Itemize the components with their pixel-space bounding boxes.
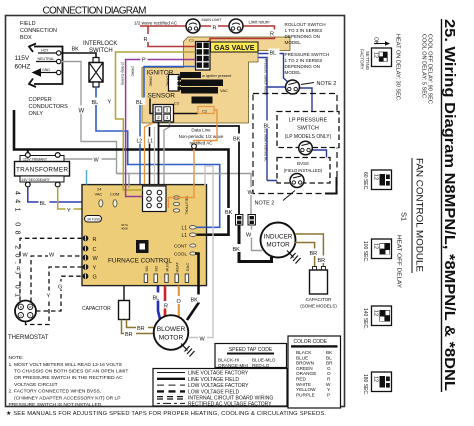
svg-text:ROLLOUT SWITCH: ROLLOUT SWITCH — [285, 22, 326, 27]
fuse 3A — [85, 216, 102, 223]
svg-text:THERMOSTAT: THERMOSTAT — [8, 335, 49, 341]
svg-text:4321: 4321 — [194, 98, 209, 103]
svg-text:S1: S1 — [400, 212, 409, 221]
svg-text:1 TO 3 IN SERIES: 1 TO 3 IN SERIES — [285, 28, 323, 33]
svg-text:BL: BL — [326, 355, 332, 360]
svg-text:COOL ON DELAY: 5 SEC: COOL ON DELAY: 5 SEC — [421, 34, 427, 98]
svg-text:RECTIFIED AC VOLTAGE FACTORY: RECTIFIED AC VOLTAGE FACTORY — [188, 401, 272, 407]
svg-text:12: 12 — [373, 376, 379, 382]
svg-text:ONLY: ONLY — [29, 111, 44, 117]
svg-text:BLOWER: BLOWER — [157, 326, 186, 333]
svg-text:NOTE 2: NOTE 2 — [255, 201, 275, 207]
svg-text:BR: BR — [137, 326, 145, 332]
wire BK hot to interlock — [61, 53, 96, 58]
svg-text:ORANGE-MHI: ORANGE-MHI — [218, 363, 248, 368]
svg-text:24VAC: 24VAC — [131, 66, 135, 77]
svg-text:PRESSURE SWITCH IS NOT INSTALL: PRESSURE SWITCH IS NOT INSTALLED. — [9, 402, 103, 408]
svg-text:BLUE: BLUE — [296, 355, 308, 360]
svg-text:LOW VOLTAGE FIELD: LOW VOLTAGE FIELD — [188, 389, 240, 395]
svg-text:L2: L2 — [137, 139, 143, 145]
svg-text:O: O — [327, 371, 331, 376]
wire O board to blower — [178, 286, 180, 317]
svg-text:25. Wiring Diagram N8MPN/L, *: 25. Wiring Diagram N8MPN/L, *8MPN/L & *8… — [441, 19, 457, 391]
dip switch S1 factory setting — [372, 48, 392, 67]
svg-text:L1: L1 — [182, 226, 188, 232]
wire orange plug drop — [145, 123, 154, 186]
svg-text:1/2 wave rectified AC: 1/2 wave rectified AC — [134, 21, 178, 26]
interlock switch — [93, 58, 99, 63]
svg-text:L1: L1 — [182, 233, 188, 239]
svg-text:12: 12 — [373, 174, 379, 180]
terminal CONT — [190, 244, 196, 247]
svg-text:ORANGE: ORANGE — [296, 371, 316, 376]
wire to blower capacitor — [123, 286, 125, 301]
data line terminal — [192, 144, 197, 149]
wire BK cool to blower — [187, 254, 199, 321]
svg-text:O: O — [177, 299, 182, 305]
svg-text:NEUTRAL: NEUTRAL — [185, 196, 190, 215]
inducer capacitor — [313, 267, 317, 271]
wire P tail into plug — [126, 184, 143, 197]
limit switch rollout — [186, 19, 200, 33]
terminal Y — [83, 264, 89, 270]
note 2 pointer lower — [283, 191, 295, 201]
wire BR inducer lower — [295, 243, 315, 267]
wire orange C2 to board — [169, 110, 218, 208]
svg-text:VAC: VAC — [95, 192, 103, 197]
svg-text:LINE VOLTAGE FIELD: LINE VOLTAGE FIELD — [188, 377, 239, 383]
svg-text:COOL OFF DELAY: 90 SEC: COOL OFF DELAY: 90 SEC — [427, 34, 433, 104]
inducer motor — [261, 223, 296, 258]
svg-text:P: P — [142, 58, 146, 64]
svg-text:RED: RED — [296, 377, 307, 382]
color code box — [288, 336, 341, 408]
terminal W — [83, 255, 89, 261]
svg-text:BK: BK — [326, 350, 333, 355]
BVSS dashed box — [277, 158, 330, 184]
svg-text:HEAT ON DELAY: 30 SEC.: HEAT ON DELAY: 30 SEC. — [395, 34, 401, 102]
svg-text:BR: BR — [326, 361, 333, 366]
svg-text:24V SECONDARY: 24V SECONDARY — [22, 178, 51, 182]
terminal 24VAC — [99, 200, 103, 207]
terminal L1 a — [189, 226, 196, 230]
legend internal circuit board wiring — [157, 396, 185, 398]
svg-text:GREEN: GREEN — [296, 366, 313, 371]
svg-text:M2: M2 — [154, 265, 159, 271]
svg-text:NOTE 2: NOTE 2 — [317, 81, 337, 87]
svg-text:R: R — [164, 304, 168, 310]
wire BL gas valve to pressure switch — [258, 54, 288, 83]
wire BL to C1 pin8 — [140, 67, 196, 187]
svg-text:LOW VOLTAGE FACTORY: LOW VOLTAGE FACTORY — [188, 383, 249, 389]
svg-text:1 TO 2 IN SERIES: 1 TO 2 IN SERIES — [285, 58, 323, 63]
outer dashed enclosure — [253, 94, 337, 194]
inducer ground — [287, 251, 301, 264]
svg-text:NEUTRAL: NEUTRAL — [38, 57, 55, 61]
svg-text:R: R — [213, 26, 217, 32]
svg-text:60HZ: 60HZ — [15, 64, 31, 71]
wire W plug to inducer motor — [252, 225, 263, 251]
svg-text:Y: Y — [108, 100, 112, 106]
note 2 pointer upper — [301, 83, 314, 85]
svg-text:1/2 wave rectified AC: 1/2 wave rectified AC — [264, 128, 268, 162]
svg-text:BVSS: BVSS — [297, 161, 309, 166]
wire pressure switch return — [258, 58, 290, 181]
svg-text:SENSOR: SENSOR — [148, 93, 176, 100]
wire orange tail on board — [169, 184, 195, 208]
svg-text:M1: M1 — [144, 265, 149, 271]
wire BR capacitor lower — [122, 320, 156, 334]
info row flame sense — [181, 87, 218, 94]
gas valve label — [211, 42, 259, 52]
svg-text:BR: BR — [318, 258, 326, 264]
svg-text:G: G — [93, 275, 97, 281]
svg-text:Limit return: Limit return — [249, 20, 271, 25]
svg-text:BLUE-MLO: BLUE-MLO — [252, 358, 276, 363]
BVSS switch PS3 — [290, 174, 304, 188]
wire black inducer feed — [159, 126, 240, 214]
plug BK inducer — [236, 215, 243, 226]
svg-text:C2: C2 — [202, 108, 208, 113]
wire W to transformer primary — [58, 159, 117, 162]
svg-text:115V: 115V — [15, 55, 30, 62]
terminal G — [83, 273, 89, 279]
wire BL interlock to board L1 — [96, 87, 220, 227]
svg-text:CONNECTION: CONNECTION — [20, 28, 57, 34]
svg-text:CAPACITOR: CAPACITOR — [306, 297, 333, 302]
svg-text:BL: BL — [264, 124, 271, 130]
svg-text:24VAC: 24VAC — [149, 76, 153, 87]
svg-text:(2-Way Comm): (2-Way Comm) — [121, 62, 125, 85]
wire red rectified AC top — [134, 18, 276, 47]
connector strip 4321 — [192, 97, 213, 104]
terminal NEUTRAL — [36, 61, 57, 63]
svg-text:HOT: HOT — [41, 49, 49, 53]
svg-text:1. MOST VOLT METERS WILL READ: 1. MOST VOLT METERS WILL READ 13-16 VOLT… — [9, 362, 123, 368]
legend rectified ac voltage factory — [157, 402, 185, 404]
svg-text:(FIELD INSTALLED): (FIELD INSTALLED) — [284, 168, 323, 173]
svg-text:BLACK-HI: BLACK-HI — [218, 358, 239, 363]
svg-text:YELLOW: YELLOW — [296, 387, 316, 392]
dip switch 140 SEC — [372, 306, 392, 326]
wire W return tail — [204, 184, 206, 186]
wire BR capacitor upper — [127, 320, 155, 328]
svg-text:W: W — [200, 337, 206, 343]
svg-text:BL: BL — [40, 201, 47, 207]
svg-text:FAN CONTROL MODULE: FAN CONTROL MODULE — [414, 158, 425, 272]
legend low voltage field — [157, 390, 185, 392]
thermostat wire Y dashed — [26, 267, 83, 325]
svg-text:C1: C1 — [189, 38, 195, 43]
svg-text:EAC: EAC — [185, 263, 190, 271]
svg-text:W: W — [49, 253, 55, 259]
svg-text:MOTOR: MOTOR — [159, 335, 184, 342]
svg-text:INDUCER: INDUCER — [264, 234, 293, 241]
wire gray C3 pin1 — [164, 122, 170, 186]
wire Y transformer com — [58, 187, 115, 209]
svg-text:Data Line: Data Line — [191, 128, 211, 133]
svg-text:SPEED TAP CODE: SPEED TAP CODE — [229, 347, 273, 353]
svg-text:WHITE: WHITE — [296, 382, 311, 387]
svg-text:100 SEC.: 100 SEC. — [362, 241, 368, 262]
svg-text:COLOR CODE: COLOR CODE — [294, 339, 328, 345]
svg-text:24VAC: 24VAC — [181, 74, 193, 78]
svg-text:(CHIMNEY ADAPTER ACCESSORY KIT: (CHIMNEY ADAPTER ACCESSORY KIT) OR LP — [14, 395, 121, 401]
svg-text:BK: BK — [233, 137, 241, 143]
svg-text:SWITCH: SWITCH — [297, 126, 319, 132]
svg-text:BL: BL — [92, 100, 99, 106]
svg-text:12: 12 — [373, 52, 379, 58]
wire P purple to C1 pin7 — [126, 60, 196, 197]
svg-text:MODEL: MODEL — [285, 70, 302, 75]
svg-text:PURPLE: PURPLE — [296, 392, 315, 397]
svg-text:BROWN: BROWN — [296, 361, 314, 366]
svg-text:W: W — [29, 305, 32, 309]
svg-text:VOLTAGE CIRCUIT: VOLTAGE CIRCUIT — [14, 382, 58, 388]
svg-text:140 SEC.: 140 SEC. — [362, 308, 368, 329]
wire black C3 to plug L1 — [158, 122, 160, 186]
svg-text:TO CHASSIS ON BOTH SIDES OF AN: TO CHASSIS ON BOTH SIDES OF AN OPEN LIMI… — [14, 369, 128, 375]
terminal HOT — [38, 52, 57, 54]
svg-text:COOL: COOL — [174, 252, 187, 257]
blower ground — [181, 344, 195, 357]
svg-text:BL: BL — [270, 51, 277, 57]
svg-text:R: R — [17, 267, 21, 273]
terminal C — [83, 246, 89, 252]
svg-text:BK: BK — [72, 47, 80, 53]
furnace control board — [82, 185, 207, 286]
svg-text:FACTORY: FACTORY — [360, 49, 365, 70]
wire BL tail into L1 — [197, 226, 207, 228]
blower motor — [154, 315, 189, 350]
svg-text:2. FACTORY CONNECTED WHEN BVSS: 2. FACTORY CONNECTED WHEN BVSS, — [9, 389, 102, 395]
svg-text:(SOME MODELS): (SOME MODELS) — [300, 304, 337, 309]
wire BK plug to inducer motor — [239, 225, 272, 262]
connector plug on board — [143, 186, 167, 212]
svg-text:HUM: HUM — [164, 262, 169, 271]
title underline — [441, 19, 443, 392]
pressure switch PS1 — [286, 80, 300, 94]
svg-text:BR: BR — [125, 332, 133, 338]
svg-text:Pressure Switch return: Pressure Switch return — [264, 59, 268, 95]
connector C2 orange — [198, 107, 214, 114]
svg-text:COM: COM — [110, 192, 119, 197]
plug W inducer — [248, 215, 255, 226]
svg-text:HEAT: HEAT — [175, 262, 180, 273]
thermostat — [15, 301, 36, 322]
svg-text:180 SEC.: 180 SEC. — [362, 374, 368, 395]
svg-text:FURNACE CONTROL: FURNACE CONTROL — [108, 258, 172, 265]
wire black plug L2 — [149, 127, 151, 186]
svg-text:FIELD: FIELD — [20, 21, 36, 27]
svg-text:GAS VALVE: GAS VALVE — [214, 43, 255, 52]
svg-text:3A FUSE: 3A FUSE — [87, 218, 101, 222]
svg-text:W: W — [94, 158, 100, 164]
svg-text:C3: C3 — [174, 101, 180, 106]
svg-text:BL: BL — [136, 100, 143, 106]
svg-text:60 SEC.: 60 SEC. — [362, 172, 368, 191]
wire W to inducer plug — [117, 174, 252, 215]
legend line voltage field — [157, 378, 185, 380]
wire BK tail into L1 — [197, 233, 207, 235]
dip switch 180 SEC — [372, 372, 392, 392]
wire LP switch to BVSS — [304, 150, 327, 180]
LP pressure switch PS2 — [299, 141, 313, 155]
ignitor connector — [169, 75, 180, 92]
wire BL board to blower — [158, 286, 160, 319]
svg-text:MODEL: MODEL — [285, 40, 302, 45]
svg-text:G: G — [58, 285, 62, 291]
terminal COM — [113, 200, 117, 207]
svg-text:12: 12 — [373, 310, 379, 316]
thermostat wire W dashed — [31, 256, 83, 302]
svg-text:flame sense >60: flame sense >60 — [183, 89, 211, 93]
svg-text:BL: BL — [153, 296, 160, 302]
dip switch 60 SEC — [372, 170, 392, 190]
svg-text:CAPACITOR: CAPACITOR — [82, 306, 111, 312]
field connection box bracket — [34, 47, 63, 85]
info row 115vac HSI supply — [181, 80, 223, 87]
svg-text:CONDUCTORS: CONDUCTORS — [29, 104, 69, 110]
terminal R — [83, 235, 89, 241]
wire Y tail into plug — [123, 184, 142, 191]
svg-text:BK: BK — [225, 210, 233, 216]
svg-text:SETTING: SETTING — [365, 51, 370, 71]
svg-text:12: 12 — [373, 243, 379, 249]
gas valve tan block — [142, 37, 290, 123]
svg-text:R: R — [144, 37, 148, 43]
wire W gray tail — [128, 184, 130, 188]
wire BR inducer upper — [295, 234, 323, 267]
svg-text:PRESSURE SWITCH: PRESSURE SWITCH — [285, 52, 330, 57]
svg-text:LINE VOLTAGE FACTORY: LINE VOLTAGE FACTORY — [188, 371, 249, 377]
limit switch main limit — [229, 19, 243, 33]
ic chip — [136, 240, 149, 253]
wire gray C3 aux — [154, 127, 156, 186]
wire R board to blower — [164, 286, 167, 317]
wire cyan stub — [86, 170, 88, 185]
legend low voltage factory — [157, 384, 185, 386]
speed tap code box — [215, 344, 287, 368]
info row 24VAC w igniter present — [180, 72, 201, 78]
terminal L1 b — [189, 233, 196, 237]
connector C3 — [153, 105, 174, 123]
terminal COOL — [190, 252, 196, 255]
thermostat wire R dashed — [20, 238, 83, 301]
connector C1 — [196, 42, 211, 71]
svg-text:C: C — [93, 247, 97, 253]
svg-text:4008: 4008 — [121, 227, 128, 231]
terminal GND with arrow — [41, 72, 57, 74]
svg-text:W: W — [23, 253, 29, 259]
svg-text:P: P — [327, 392, 330, 397]
svg-text:MAIN LIMIT: MAIN LIMIT — [202, 18, 223, 22]
svg-text:TRANSFORMER: TRANSFORMER — [16, 167, 68, 174]
dip switch 100 SEC — [372, 239, 392, 259]
thermostat wire G dashed — [36, 276, 83, 311]
blower capacitor — [119, 301, 130, 320]
svg-text:W: W — [246, 233, 252, 239]
svg-text:L1: L1 — [148, 139, 154, 145]
svg-text:LP PRESSURE: LP PRESSURE — [289, 118, 328, 124]
legend line voltage factory — [157, 372, 185, 374]
wire sensor lead — [150, 99, 198, 114]
svg-text:W: W — [326, 382, 331, 387]
svg-text:Y: Y — [29, 313, 31, 317]
svg-text:MOTOR: MOTOR — [266, 242, 290, 249]
svg-text:R: R — [270, 32, 274, 38]
svg-text:HEAT OFF DELAY: HEAT OFF DELAY — [396, 235, 402, 288]
svg-text:★ SEE MANUALS FOR ADJUSTING SP: ★ SEE MANUALS FOR ADJUSTING SPEED TAPS F… — [6, 410, 326, 417]
svg-text:BK: BK — [233, 247, 241, 253]
svg-text:VAC: VAC — [220, 88, 228, 93]
svg-text:24VAC: 24VAC — [166, 76, 170, 87]
svg-text:BK: BK — [191, 298, 199, 304]
svg-text:INTERLOCK: INTERLOCK — [83, 41, 117, 47]
svg-text:BOX: BOX — [20, 35, 32, 41]
svg-text:W: W — [79, 109, 85, 115]
svg-text:(LP MODELS ONLY): (LP MODELS ONLY) — [285, 134, 332, 140]
transformer T1 — [20, 156, 64, 162]
svg-text:BR: BR — [310, 251, 318, 257]
svg-text:W: W — [93, 256, 99, 262]
wire Y to C1 pin6 — [116, 52, 196, 190]
svg-text:G: G — [327, 366, 331, 371]
wire BK main bus — [14, 110, 229, 235]
wire W blower return — [188, 166, 213, 338]
svg-text:Y: Y — [67, 208, 71, 214]
wire W neutral — [61, 62, 129, 187]
legend box — [153, 369, 287, 407]
wire pressure switch to LP switch — [300, 88, 313, 144]
svg-text:RED-LO: RED-LO — [252, 363, 270, 368]
svg-text:R: R — [93, 237, 97, 243]
wire BL transformer 24vac — [28, 187, 101, 202]
svg-text:NOTE:: NOTE: — [9, 355, 24, 361]
svg-text:CONT: CONT — [174, 244, 187, 249]
svg-text:DEPENDING ON: DEPENDING ON — [285, 34, 320, 39]
neutral terminals — [173, 196, 179, 199]
svg-text:BLACK: BLACK — [296, 350, 312, 355]
LP pressure switch dashed box — [277, 112, 339, 148]
svg-text:Y: Y — [93, 266, 97, 272]
svg-text:OR PRESSURE SWITCH IN THE RECT: OR PRESSURE SWITCH IN THE RECTIFIED AC — [14, 375, 123, 381]
svg-text:COPPER: COPPER — [29, 97, 52, 103]
svg-text:Y: Y — [47, 294, 51, 300]
svg-text:115vac HSI supply: 115vac HSI supply — [183, 82, 214, 86]
svg-text:GND: GND — [42, 68, 50, 72]
main diagram border — [6, 16, 345, 407]
svg-text:w igniter present: w igniter present — [202, 73, 232, 78]
svg-text:DEPENDING ON: DEPENDING ON — [285, 64, 320, 69]
wire BK stub to transformer primary — [27, 150, 29, 156]
